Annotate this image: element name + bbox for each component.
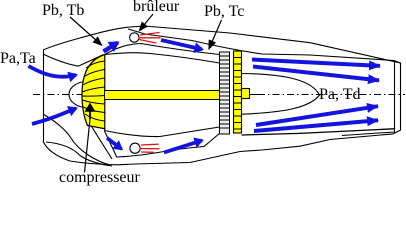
label bruleur: [133, 0, 179, 16]
turbine rotor yellow bar: [234, 51, 242, 133]
arrow exhaust 1: [252, 60, 380, 66]
wire duct top line A diffuser to turbine: [104, 44, 220, 56]
arrow inlet lower: [32, 108, 76, 124]
compressor blade hatch lines: [82, 61, 105, 121]
node tail cone: [242, 74, 320, 115]
arrow exhaust 4: [254, 120, 378, 131]
turbine hub: [242, 89, 250, 99]
burner top flame: [139, 33, 161, 44]
shaft: [105, 91, 220, 100]
wire center dash-dot axis right: [249, 94, 258, 96]
compressor C yellow body: [82, 55, 105, 129]
wire annulus bottom line: [117, 134, 220, 158]
wire outer skin top long line: [130, 26, 401, 63]
wire shroud line to compressor tip: [78, 55, 104, 67]
wire outer cowl top curve to peak: [43, 27, 130, 50]
label Pb, Tb: [42, 2, 84, 20]
leader Pb Tc: [209, 20, 222, 49]
arrow duct down bottom: [107, 138, 122, 149]
burner top circle: [130, 33, 139, 42]
wire outer cowl bottom: [43, 134, 394, 165]
label compresseur: [59, 169, 140, 187]
wire boattail cap: [394, 61, 401, 134]
wire duct wall diagonal left: [90, 124, 112, 159]
node spinner nose cone: [69, 82, 87, 108]
arrow exhaust 3: [256, 106, 378, 125]
wire lower cowl inner skin: [46, 142, 112, 166]
wire nozzle exit vertical: [394, 61, 396, 134]
leader compresseur: [85, 119, 91, 173]
wire center dash-dot axis left: [33, 94, 104, 96]
wire outer cowl inlet vertical: [43, 50, 45, 142]
arrow inlet upper Pa Ta: [29, 66, 77, 77]
burner bottom circle: [130, 143, 140, 153]
wire nozzle inner wall doubling: [342, 132, 394, 136]
label Pa, Td: [319, 86, 360, 104]
wire cavity top line B: [105, 53, 220, 63]
wire inner wall top line: [128, 29, 394, 61]
label Pb, Tc: [204, 3, 244, 21]
wire inlet lower lip sweep: [43, 114, 110, 165]
leader bruleur: [140, 14, 154, 31]
arrow combustor bottom: [164, 140, 202, 152]
wire cavity bottom line: [105, 127, 220, 137]
wire inner lip upper: [43, 54, 78, 66]
label Pa,Ta: [0, 50, 36, 68]
burner bottom flame: [140, 144, 160, 152]
wire aft duct bottom line: [242, 129, 395, 135]
wire duct wall diagonal right: [105, 129, 117, 158]
leader Pb Tb: [70, 17, 102, 45]
arrow exhaust 2: [253, 67, 379, 81]
arrow diffuser top: [104, 43, 118, 52]
arrow compressor rotation: [89, 112, 91, 120]
arrow combustor top: [161, 40, 202, 49]
turbine stator grey bar: [220, 52, 230, 134]
